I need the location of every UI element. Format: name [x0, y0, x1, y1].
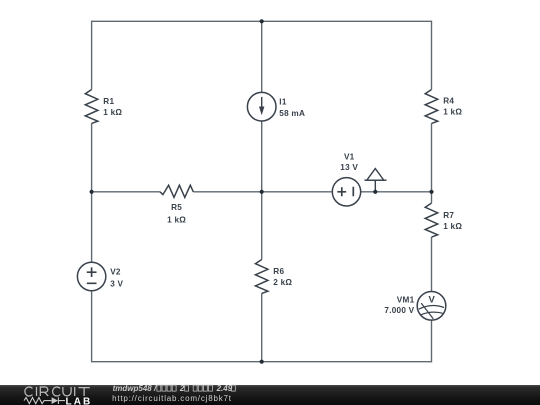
svg-text:3 V: 3 V	[110, 279, 123, 288]
wire middle vertical lower	[261, 293, 263, 361]
wire middle vertical center	[261, 121, 263, 259]
junction antenna node	[373, 190, 377, 194]
svg-text:R1: R1	[103, 97, 114, 106]
svg-text:1 kΩ: 1 kΩ	[167, 215, 186, 224]
junction center node	[260, 190, 264, 194]
junction bottom node	[260, 360, 264, 364]
wire right upper	[431, 21, 433, 90]
svg-text:V2: V2	[110, 267, 121, 276]
footer title text	[113, 384, 236, 393]
footer logo CIRCUIT	[25, 387, 90, 396]
svg-text:13 V: 13 V	[340, 163, 358, 172]
voltage source V2	[77, 262, 105, 290]
svg-text:R7: R7	[443, 211, 454, 220]
svg-text:1 kΩ: 1 kΩ	[443, 107, 462, 116]
junction right middle node	[429, 190, 433, 194]
svg-text:1 kΩ: 1 kΩ	[443, 222, 462, 231]
wire left upper	[91, 21, 93, 90]
footer logo resistor-diode icon	[24, 397, 65, 404]
wire middle vertical upper	[261, 21, 263, 92]
resistor R6	[255, 260, 268, 294]
svg-text:I1: I1	[279, 97, 287, 106]
wire right lower	[431, 237, 433, 291]
wire middle horizontal right	[361, 191, 432, 193]
svg-text:http://circuitlab.com/cj8bk7t: http://circuitlab.com/cj8bk7t	[112, 394, 232, 403]
wire top	[92, 20, 432, 22]
svg-text:V: V	[429, 294, 436, 305]
footer bar	[0, 385, 540, 405]
junction top node	[260, 19, 264, 23]
svg-text:2: 2	[179, 384, 185, 393]
voltage source V1	[332, 178, 360, 206]
current source I1	[247, 92, 276, 121]
svg-text:R4: R4	[443, 97, 454, 106]
voltmeter VM1	[417, 292, 446, 321]
svg-text:2 kΩ: 2 kΩ	[273, 278, 292, 287]
wire middle horizontal left	[92, 191, 160, 193]
svg-text:V1: V1	[344, 153, 355, 162]
resistor R7	[425, 203, 438, 237]
resistor R4	[425, 90, 438, 124]
svg-text:VM1: VM1	[397, 296, 415, 305]
wire middle horizontal center	[193, 191, 332, 193]
svg-text:LAB: LAB	[66, 396, 93, 405]
wire bottom	[92, 361, 432, 363]
svg-text:R6: R6	[273, 267, 284, 276]
svg-text:7.000 V: 7.000 V	[384, 306, 414, 315]
svg-text:2.49: 2.49	[216, 384, 233, 393]
wire right middle	[431, 123, 433, 203]
svg-text:R5: R5	[171, 203, 182, 212]
resistor R1	[85, 90, 98, 124]
wire left lower	[91, 291, 93, 363]
svg-text:58 mA: 58 mA	[279, 109, 305, 118]
antenna node flag	[364, 169, 386, 192]
svg-text:tmdwp548 /: tmdwp548 /	[113, 384, 157, 393]
wire left middle	[91, 123, 93, 262]
resistor R5	[160, 185, 193, 197]
svg-text:1 kΩ: 1 kΩ	[103, 108, 122, 117]
junction left middle node	[90, 190, 94, 194]
wire right bottom	[431, 320, 433, 362]
